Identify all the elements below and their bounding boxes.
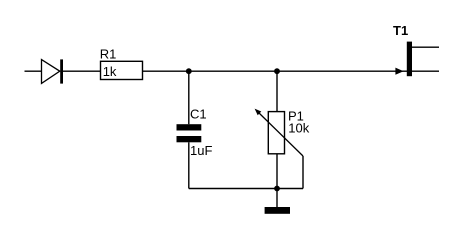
wire: P1 bottom to rail <box>276 154 278 189</box>
svg-text:T1: T1 <box>393 23 408 38</box>
wire: T1 top stub <box>412 46 439 48</box>
wire: node A to node B <box>189 70 277 72</box>
potentiometer P1 <box>255 109 303 156</box>
wire: R1 to node A <box>143 70 189 72</box>
wire: rail junction to ground <box>276 189 278 208</box>
wire: input lead to diode <box>25 70 42 72</box>
node C (junction dot on rail) <box>274 186 280 192</box>
svg-text:10k: 10k <box>288 121 309 136</box>
terminal T1 <box>395 42 412 77</box>
wire: bottom rail <box>189 188 303 190</box>
svg-text:R1: R1 <box>100 47 117 62</box>
diode D1 <box>42 59 64 83</box>
node A (junction dot) <box>186 68 192 74</box>
wire: node B to terminal T1 <box>277 70 407 72</box>
wire: diode to resistor R1 <box>63 70 101 72</box>
resistor R1 <box>101 61 143 79</box>
svg-text:1uF: 1uF <box>190 143 212 158</box>
ground <box>265 207 290 214</box>
wire: C1 down to bottom rail <box>188 142 190 188</box>
wire: node B down to P1 <box>276 71 278 111</box>
capacitor C1 <box>177 124 202 142</box>
wire: T1 bottom stub <box>412 70 439 72</box>
svg-text:C1: C1 <box>190 106 207 121</box>
node B (junction dot) <box>274 68 280 74</box>
wire: P1 wiper down to bottom rail <box>302 156 304 189</box>
wire: node A down to C1 <box>188 71 190 124</box>
svg-text:1k: 1k <box>103 64 117 79</box>
